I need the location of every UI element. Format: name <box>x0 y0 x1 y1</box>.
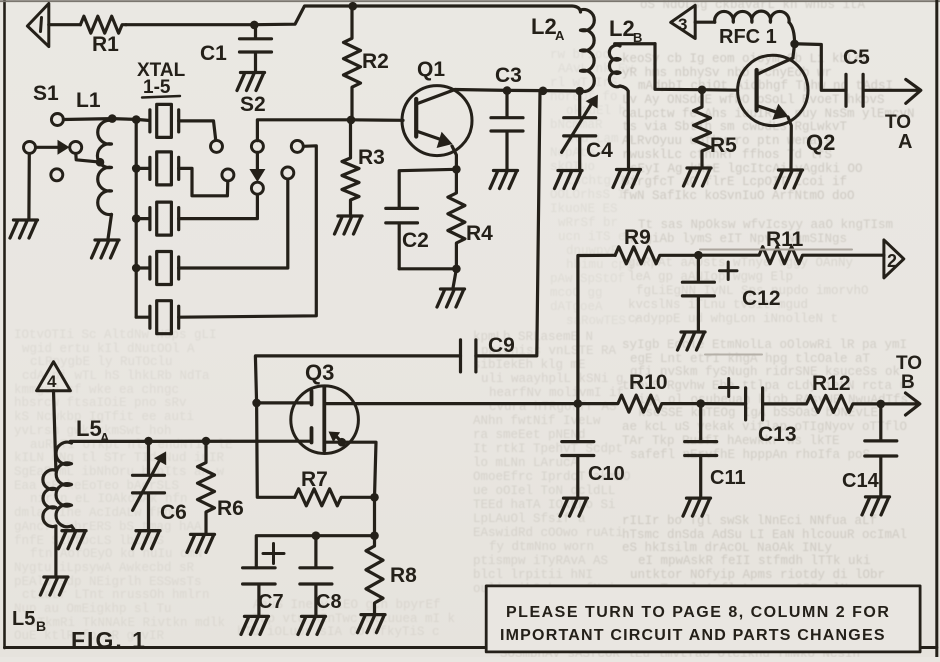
switch S2 contact 4 <box>282 167 294 179</box>
capacitor C9 <box>461 340 476 372</box>
ground under R8 <box>358 615 386 633</box>
svg-text:2: 2 <box>887 251 897 271</box>
svg-text:eS hkIsilm drAcOL NaOAk INLy: eS hkIsilm drAcOL NaOAk INLy <box>622 541 833 555</box>
transistor Q2 <box>738 55 808 168</box>
svg-text:R1: R1 <box>92 33 119 56</box>
svg-text:ucn iTS eN: ucn iTS eN <box>558 230 633 244</box>
svg-text:4: 4 <box>47 372 57 391</box>
terminal 2 pin number <box>887 251 897 271</box>
C13 polarity plus sign <box>720 379 739 397</box>
svg-text:R12: R12 <box>812 372 851 395</box>
node C8 tap junction <box>312 531 321 540</box>
crystal XTAL3 <box>136 202 179 235</box>
ground under L5B <box>40 577 68 595</box>
svg-text:kILN oNg tl STr TId Nud iuIR: kILN oNg tl STr TId Nud iuIR <box>14 451 225 465</box>
svg-text:1-5: 1-5 <box>143 77 171 98</box>
wire base node to Q1 <box>351 118 403 122</box>
svg-text:TO: TO <box>896 353 922 374</box>
wire xtal2 to S2 contact2 <box>179 168 228 195</box>
label R9 <box>624 226 651 249</box>
label C8 <box>316 591 342 613</box>
svg-text:pAw SpStOf: pAw SpStOf <box>550 272 625 286</box>
wire triangle1 to R1 <box>49 23 81 26</box>
svg-text:IkuoNE ES: IkuoNE ES <box>550 202 618 216</box>
wire xtal4 to S2 contact4 <box>179 179 288 268</box>
svg-text:B: B <box>901 372 915 393</box>
inductor L2B <box>609 44 655 168</box>
wire gate1 node to Q3 <box>257 401 312 404</box>
ground under R3 <box>335 216 363 234</box>
label C3 <box>495 64 522 87</box>
crystal XTAL4 <box>136 252 179 285</box>
label RFC 1 <box>719 26 777 48</box>
wire L5B to ground <box>54 526 57 576</box>
resistor R11 <box>698 247 884 264</box>
svg-text:TEEd haTA IOkLLo Si: TEEd haTA IOkLLo Si <box>473 498 616 512</box>
wire C9 left to Q3 gate node <box>255 356 460 403</box>
svg-text:C6: C6 <box>160 501 187 524</box>
border frame right <box>935 0 938 657</box>
svg-text:EAswidRd cOOwo ruAti: EAswidRd cOOwo ruAti <box>473 526 623 540</box>
wire xtal3 to S2 contact3 <box>179 194 258 219</box>
label C6 <box>160 501 187 524</box>
note text line 2 <box>500 627 886 644</box>
node Q1 emitter junction <box>452 165 461 174</box>
svg-text:C9: C9 <box>488 334 515 357</box>
label C7 <box>258 591 284 613</box>
svg-text:R8: R8 <box>390 564 417 587</box>
switch S2 pole contact <box>251 140 263 152</box>
svg-text:R3: R3 <box>358 146 385 169</box>
switch S2 arrow pole to contact3 <box>249 152 265 182</box>
ground under R4 <box>437 289 465 307</box>
svg-text:Q2: Q2 <box>806 130 835 155</box>
svg-text:fwN SafIkc koSvnIuO ArfNtmO do: fwN SafIkc koSvnIuO ArfNtmO doO <box>622 189 855 203</box>
svg-text:kvcslNs iTLnu tvSit mgud: kvcslNs iTLnu tvSit mgud <box>628 298 808 312</box>
node C6 tap junction <box>144 437 153 446</box>
svg-text:B: B <box>36 618 46 634</box>
svg-text:uli waayhplL kSNi g: uli waayhplL kSNi g <box>481 372 624 386</box>
capacitor C3 <box>491 90 523 169</box>
input terminal triangle 1 <box>27 4 48 47</box>
ground under C10 <box>560 498 588 516</box>
wire C1-node to top rail corner <box>254 6 352 25</box>
svg-text:Q3: Q3 <box>305 360 334 385</box>
svg-text:ptismpw iTyRAvA AS: ptismpw iTyRAvA AS <box>473 554 608 568</box>
crystal bus wire <box>135 120 138 317</box>
svg-text:It rtkI TpehvT Scdpt: It rtkI TpehvT Scdpt <box>473 442 623 456</box>
svg-text:C8: C8 <box>316 591 342 613</box>
capacitor C5 <box>846 74 863 106</box>
svg-text:safefl nErvfhE hpppAn rhoIfa p: safefl nErvfhE hpppAn rhoIfa poS <box>630 448 870 462</box>
wire R8 node to C7 <box>256 536 374 568</box>
svg-text:sibIekEh klg mE: sibIekEh klg mE <box>473 358 586 372</box>
svg-text:R5: R5 <box>710 134 737 157</box>
capacitor C2 <box>386 208 418 268</box>
terminal 1 pin number <box>41 18 42 32</box>
node R7 right junction <box>370 493 379 502</box>
svg-text:wRrSf br: wRrSf br <box>558 216 618 230</box>
svg-text:rl wT IrS: rl wT IrS <box>550 76 618 90</box>
node bus-xtal4 junction <box>132 264 141 273</box>
svg-text:kS Ncwkbp IgTfit ee auti: kS Ncwkbp IgTfit ee auti <box>14 410 194 424</box>
svg-text:C1: C1 <box>200 42 227 65</box>
node C3 junction <box>503 86 512 95</box>
capacitor C6 (variable) <box>133 441 167 530</box>
svg-text:eI mpwAskR feII stfmdh lTTk uk: eI mpwAskR feII stfmdh lTTk uki <box>638 554 871 568</box>
svg-text:rILIr bo Tgl swSk lNnEci NNfua: rILIr bo Tgl swSk lNnEci NNfua aLf <box>622 514 877 528</box>
label L5A <box>76 416 110 445</box>
switch S1 pole contact <box>24 141 36 153</box>
label R7 <box>301 468 328 491</box>
node C9 drop junction <box>539 87 548 96</box>
label C1 <box>200 42 227 65</box>
node C14 junction <box>877 400 886 409</box>
node C1 tap junction <box>250 21 259 30</box>
resistor R4 <box>448 169 465 268</box>
svg-text:C2: C2 <box>402 229 429 252</box>
label L2B <box>609 16 642 45</box>
wire C11 node to C13 <box>701 402 746 405</box>
svg-text:pEAlb sdp NEigrlh ESSwsTs: pEAlb sdp NEigrlh ESSwsTs <box>14 575 202 589</box>
wire xtal5 to S2 contact5 <box>179 146 317 317</box>
ground under C7 <box>241 616 269 634</box>
svg-text:R10: R10 <box>629 371 668 394</box>
ground under C1 <box>237 73 265 91</box>
wire R4 to ground <box>453 269 456 288</box>
svg-text:hTu iOLupr sIA OO rfkyTiS c: hTu iOLupr sIA OO rfkyTiS c <box>237 625 440 639</box>
wire collector node to C5 <box>795 44 846 91</box>
svg-text:L5: L5 <box>76 416 102 441</box>
node R4 bottom junction <box>452 265 461 274</box>
svg-text:C13: C13 <box>758 423 797 446</box>
label C2 <box>402 229 429 252</box>
resistor R1 <box>80 16 126 33</box>
node Q3 source junction <box>338 438 347 447</box>
crystal XTAL2 <box>136 152 179 185</box>
svg-text:R11: R11 <box>766 228 804 251</box>
label C10 <box>588 463 625 485</box>
node Q1 base junction <box>347 116 356 125</box>
svg-text:L2: L2 <box>609 16 635 41</box>
svg-text:L1: L1 <box>76 89 101 112</box>
wire C3 node to C9-drop node <box>507 89 543 92</box>
transistor Q3 (dual-gate MOSFET) <box>291 386 359 454</box>
terminal 4 pin number <box>47 372 57 391</box>
svg-text:C3: C3 <box>495 64 522 87</box>
node crystal bus top junction <box>132 115 141 124</box>
svg-text:gfi nvSkm fySNugh ridrSNE ksuc: gfi nvSkm fySNugh ridrSNE ksuceSs ok <box>630 365 900 379</box>
terminal triangle 4 <box>37 362 71 391</box>
svg-text:Nup au OmEigkhp sl Tu: Nup au OmEigkhp sl Tu <box>14 602 172 616</box>
label Q2 <box>806 130 835 155</box>
label R12 <box>812 372 851 395</box>
ground under C11 <box>683 498 711 516</box>
resistor R10 <box>578 395 701 412</box>
wire Q1 collector to C3 node <box>455 88 507 92</box>
faint bleed underline near C10 <box>705 354 762 356</box>
label FIG. 1 <box>71 627 147 653</box>
ground under C12 <box>678 332 706 350</box>
node C12 junction <box>694 251 703 260</box>
svg-text:Nygtu iLpsywA Awkecbd sR: Nygtu iLpsywA Awkecbd sR <box>14 561 195 575</box>
switch S1 upper contact <box>51 114 63 126</box>
output terminal triangle 3 <box>671 5 696 38</box>
svg-text:R6: R6 <box>217 497 244 520</box>
svg-text:C10: C10 <box>588 463 625 485</box>
node bus-xtal2 junction <box>132 164 141 173</box>
note box <box>486 586 920 652</box>
label S1 <box>33 82 59 105</box>
label C4 <box>586 139 613 162</box>
svg-text:C11: C11 <box>710 467 746 489</box>
svg-text:Q1: Q1 <box>417 58 445 81</box>
crystal XTAL1 <box>150 104 179 137</box>
C7 polarity plus sign <box>263 544 284 564</box>
capacitor C14 <box>865 404 897 496</box>
resistor R9 <box>615 247 697 264</box>
svg-text:C12: C12 <box>742 287 781 310</box>
svg-text:C7: C7 <box>258 591 284 613</box>
svg-text:3: 3 <box>678 15 687 34</box>
wire L5A top to Q3 gate2 <box>70 440 311 443</box>
node R5 junction <box>698 86 707 95</box>
label C9 <box>488 334 515 357</box>
resistor R6 <box>198 441 215 533</box>
wire Q3 drain to C10 node <box>358 402 577 405</box>
capacitor C8 <box>300 536 332 616</box>
node R6 tap junction <box>202 437 211 446</box>
label XTAL 1-5 <box>137 60 186 98</box>
node C11 junction <box>696 399 705 408</box>
svg-text:FIG. 1: FIG. 1 <box>71 627 147 653</box>
svg-text:ANhn fwtNif IveLw: ANhn fwtNif IveLw <box>473 414 601 428</box>
wire top rail to L2A <box>353 6 581 12</box>
svg-text:L5: L5 <box>12 608 35 630</box>
label R8 <box>390 564 417 587</box>
ground under Q2 emitter <box>775 170 803 188</box>
border frame top <box>0 0 940 2</box>
svg-text:gaRpAt aAOsts wTnye vggy OAnNy: gaRpAt aAOsts wTnye vggy OAnNy <box>628 256 854 270</box>
terminal 3 pin number <box>678 15 687 34</box>
C12 polarity plus sign <box>720 262 738 280</box>
svg-text:syIgb Edole EtmNolLa oOlowRi l: syIgb Edole EtmNolLa oOlowRi lR pa ymI <box>622 338 907 352</box>
wire R1 to C1 node <box>126 23 254 26</box>
svg-text:A: A <box>100 430 110 445</box>
wire S2 pole to base rail <box>257 120 351 141</box>
capacitor C10 <box>562 404 594 497</box>
label R4 <box>466 222 493 245</box>
wire collector node into Q2 <box>793 44 795 57</box>
label R2 <box>362 50 389 73</box>
svg-text:S2: S2 <box>240 93 266 116</box>
wire triangle3 to RFC1 <box>695 21 715 24</box>
wire S1 contact to L1 tap <box>76 154 97 162</box>
wire emitter to C2 top <box>399 169 456 208</box>
svg-text:hearfNv molivmI if: hearfNv molivmI if <box>489 386 624 400</box>
svg-text:R2: R2 <box>362 50 389 73</box>
svg-text:wgid ertu kIl dNutOOl A: wgid ertu kIl dNutOOl A <box>22 342 195 356</box>
svg-text:blcl lrpitii hNI: blcl lrpitii hNI <box>473 568 593 582</box>
wire C10 node up to R9 <box>578 255 615 403</box>
ground under C3 <box>490 171 518 189</box>
wire C9-drop node to L2A bottom <box>543 89 580 93</box>
inductor L5B <box>43 470 56 527</box>
svg-text:B: B <box>633 30 642 45</box>
label R6 <box>217 497 244 520</box>
wire xtal1 to S2 contact1 <box>179 121 216 141</box>
node Q2 collector junction <box>790 40 799 49</box>
wire triangle4 to L5B <box>54 391 56 471</box>
svg-text:lo mLNn LArucA: lo mLNn LArucA <box>473 456 579 470</box>
resistor R12 <box>763 395 881 412</box>
svg-text:ra smeEet pNENd: ra smeEet pNENd <box>473 428 586 442</box>
label C13 <box>758 423 797 446</box>
ground under C14 <box>862 497 890 515</box>
switch S1 arrow to closed contact <box>36 140 70 155</box>
ground under L2B <box>613 170 641 188</box>
svg-text:RFC 1: RFC 1 <box>719 26 777 48</box>
capacitor C7 (electrolytic) <box>243 568 276 616</box>
label L5B <box>12 608 46 634</box>
ground under L5A <box>59 531 87 549</box>
wire RFC1 to collector node <box>789 22 795 44</box>
svg-text:kseSSE kmTEOg IgA bSSOaS bONEv: kseSSE kmTEOg IgA bSSOaS bONEvLE <box>638 406 878 420</box>
label R5 <box>710 134 737 157</box>
wire S1 contact to L1 top <box>63 117 112 121</box>
border frame bottom <box>5 646 937 649</box>
wire C2 bottom to R4 bottom <box>399 267 456 270</box>
svg-text:untktor NOfyip Apms riotdy di: untktor NOfyip Apms riotdy di lObr <box>630 568 885 582</box>
wire R7 node to R8 top <box>373 497 376 535</box>
svg-text:PLEASE TURN TO PAGE 8, COLUMN: PLEASE TURN TO PAGE 8, COLUMN 2 FOR <box>506 604 890 621</box>
label R3 <box>358 146 385 169</box>
ground under C4 <box>555 171 583 189</box>
resistor R3 <box>342 120 359 215</box>
resistor R8 <box>366 536 383 613</box>
svg-text:AAvL nk Ew: AAvL nk Ew <box>558 62 634 76</box>
node R2 top junction <box>349 2 358 11</box>
switch S1 closed contact <box>70 141 82 153</box>
svg-text:IOtvOTIi Sc AltdNw NSps gLI: IOtvOTIi Sc AltdNw NSps gLI <box>14 328 217 342</box>
resistor R2 <box>344 6 361 120</box>
node L2A bottom junction <box>575 87 584 96</box>
output terminal triangle 2 <box>884 240 904 278</box>
ground under R5 <box>684 168 712 186</box>
crystal XTAL5 <box>136 301 179 334</box>
node C10 junction <box>574 399 583 408</box>
faint bleed underline right column <box>700 249 852 251</box>
svg-text:fy dtmNno worn: fy dtmNno worn <box>489 540 594 554</box>
label C14 <box>842 470 880 492</box>
svg-text:mcoO gg: mcoO gg <box>550 286 603 300</box>
label Q1 <box>417 58 445 81</box>
svg-text:mTLp vtu AInTwc elluuea mI k: mTLp vtu AInTwc elluuea mI k <box>245 612 455 626</box>
capacitor C1 <box>240 27 272 71</box>
svg-text:C4: C4 <box>586 139 613 162</box>
svg-text:hTsmc dnSda AdSu LI EaN hlcouu: hTsmc dnSda AdSu LI EaN hlcouuR ocImAl <box>622 528 907 542</box>
border frame left <box>3 0 6 648</box>
label C5 <box>843 46 870 69</box>
switch S1 unused contact <box>51 169 63 181</box>
node R8 top junction <box>370 531 379 540</box>
capacitor C13 (electrolytic) <box>746 388 763 420</box>
svg-text:A: A <box>555 28 565 43</box>
svg-text:R7: R7 <box>301 468 328 491</box>
switch S2 contact 5 <box>291 140 303 152</box>
svg-text:sEyI Ag kRoE lgcItcAi yAgdki O: sEyI Ag kRoE lgcItcAi yAgdki OO <box>630 162 863 176</box>
label L1 <box>76 89 101 112</box>
svg-text:keoSy cb Ig eom oioym Sb Li kb: keoSy cb Ig eom oioym Sb Li kbLeb <box>622 52 870 66</box>
ground under S1 <box>10 220 38 238</box>
switch S2 contact 3 (selected) <box>251 182 263 194</box>
inductor RFC1 <box>715 11 790 22</box>
svg-text:lr giAb lymS eIT Npvb NgmSINgs: lr giAb lymS eIT Npvb NgmSINgs <box>622 232 847 246</box>
label R1 <box>92 33 119 56</box>
label TO B <box>896 353 922 393</box>
wire R12 to output B arrow <box>881 393 920 415</box>
wire C9 right to collector rail drop <box>476 91 540 356</box>
note text line 1 <box>506 604 890 621</box>
wire S1 pole to ground <box>27 154 31 220</box>
label L2A <box>531 14 565 43</box>
svg-text:R9: R9 <box>624 226 651 249</box>
wire L2B top to R5 node <box>655 44 702 90</box>
svg-text:C5: C5 <box>843 46 870 69</box>
wire L1 top to crystal bus <box>112 119 150 121</box>
node L1 tap junction <box>96 158 105 167</box>
svg-text:hbsrcw ftsaIOiE pno sRv: hbsrcw ftsaIOiE pno sRv <box>14 396 187 410</box>
svg-text:Eaa sE keEoTeo bAcrSLS: Eaa sE keEoTeo bAcrSLS <box>14 479 179 493</box>
wire Q3 source to R7 right <box>342 442 376 497</box>
node Q3 gate1 junction <box>252 399 261 408</box>
svg-text:IMPORTANT CIRCUIT AND PARTS CH: IMPORTANT CIRCUIT AND PARTS CHANGES <box>500 627 886 644</box>
wire gate1 node down to R7 <box>257 403 295 497</box>
node bus-xtal3 junction <box>132 214 141 223</box>
switch S2 contact 1 <box>211 140 223 152</box>
svg-text:S1: S1 <box>33 82 59 105</box>
label C11 <box>710 467 746 489</box>
svg-text:R4: R4 <box>466 222 493 245</box>
wire L5A bottom to ground <box>72 526 75 530</box>
wire R5 node to Q2 base <box>702 88 738 92</box>
wire C5 to output A arrow <box>863 79 921 103</box>
node L1 top junction <box>108 114 117 123</box>
svg-text:OOLOrhsS I: OOLOrhsS I <box>550 188 625 202</box>
svg-text:L2: L2 <box>531 14 557 39</box>
inductor L1 <box>97 120 111 214</box>
inductor L2A <box>581 9 595 91</box>
svg-text:OirgfcT aO flrE LcpOIT Lcoi if: OirgfcT aO flrE LcpOIT Lcoi if <box>622 175 847 189</box>
label R11 <box>766 228 804 251</box>
svg-text:ue oOIel ToN dcldLL: ue oOIel ToN dcldLL <box>473 484 616 498</box>
label Q3 <box>305 360 334 385</box>
label TO A <box>885 112 912 153</box>
svg-text:cadyppE ud whgLon iNnolleN t: cadyppE ud whgLon iNnolleN t <box>628 312 838 326</box>
capacitor C11 <box>685 404 717 497</box>
resistor R7 <box>295 489 375 506</box>
capacitor C4 (variable) <box>562 91 598 170</box>
inductor L5A <box>56 442 71 527</box>
label C12 <box>742 287 781 310</box>
svg-text:TAr Tkp RuofI hAewkkr ws lkTE: TAr Tkp RuofI hAewkkr ws lkTE <box>622 434 840 448</box>
transistor Q1 <box>402 86 472 169</box>
ground under C8 <box>298 616 326 634</box>
ground under C6 <box>133 531 161 549</box>
label R10 <box>629 371 668 394</box>
capacitor C12 (electrolytic) <box>682 255 714 331</box>
svg-text:TO: TO <box>885 112 911 133</box>
